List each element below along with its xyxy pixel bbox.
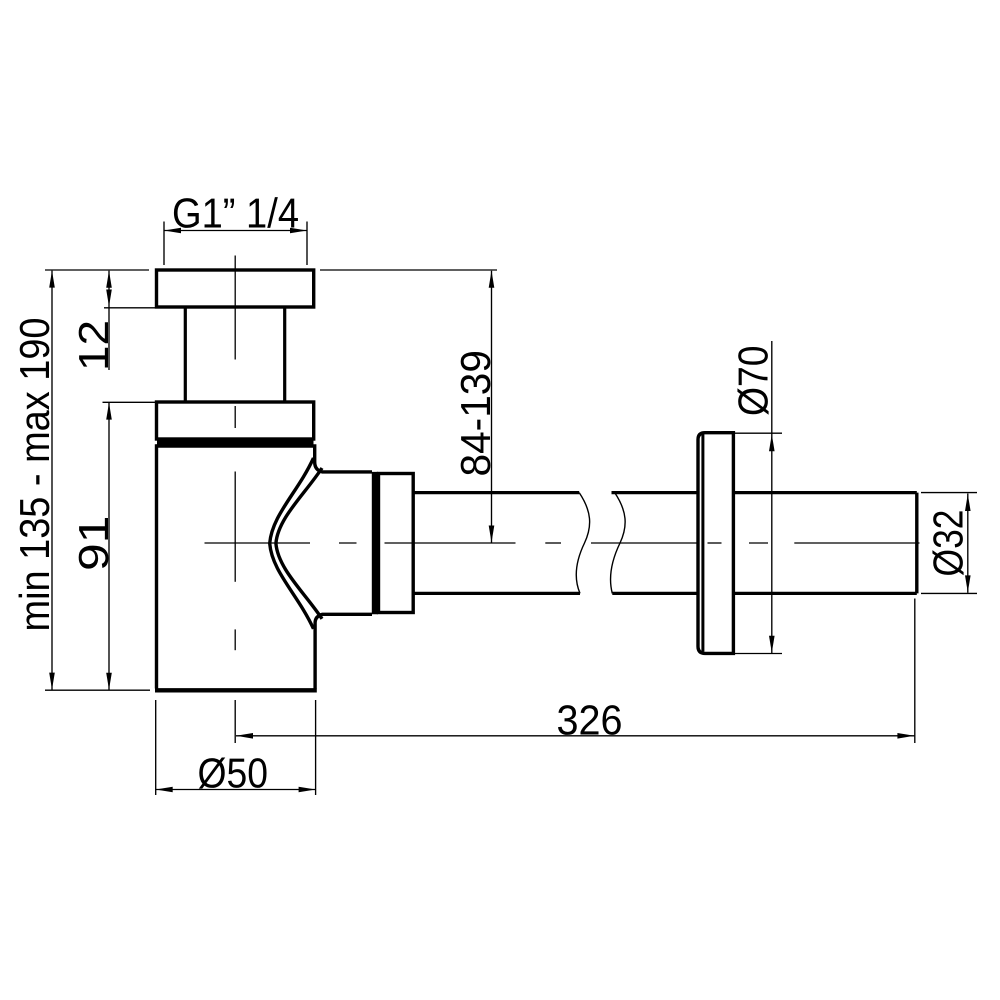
dimension 91 extension <box>103 401 156 403</box>
pipe break squiggle 1 <box>576 493 589 594</box>
svg-text:91: 91 <box>70 516 117 572</box>
vertical center line <box>234 256 236 651</box>
trap body cup <box>155 444 158 688</box>
dimension min135-max190 extension bottom <box>45 689 150 691</box>
lower flange (body cap) <box>157 402 314 439</box>
diam50 arrows <box>156 787 173 793</box>
outlet saddle outer curve <box>270 458 314 629</box>
dimension min135-max190 line <box>51 271 53 690</box>
dimension 84-139 extension <box>320 269 497 271</box>
svg-text:G1” 1/4: G1” 1/4 <box>172 189 299 236</box>
outlet gasket (thick) <box>372 472 378 614</box>
svg-text:Ø50: Ø50 <box>197 750 268 797</box>
dimension diam32 extensions <box>921 493 977 594</box>
dimension 12 line <box>108 271 110 370</box>
svg-text:326: 326 <box>557 697 623 744</box>
wall flange face line <box>701 435 704 652</box>
326 arrows <box>236 733 253 739</box>
84-139 arrows <box>489 271 495 288</box>
svg-text:min 135 - max 190: min 135 - max 190 <box>11 318 58 632</box>
91 arrows <box>106 403 112 420</box>
dimension 91 line <box>108 403 110 690</box>
dimension diam50 line <box>156 789 316 791</box>
G1 arrows <box>164 228 181 234</box>
svg-text:84-139: 84-139 <box>452 350 499 477</box>
diam32 arrows <box>965 494 971 511</box>
svg-text:Ø32: Ø32 <box>925 510 972 577</box>
svg-text:Ø70: Ø70 <box>730 346 777 417</box>
outlet pipe segment 3 <box>733 493 916 594</box>
horizontal center line <box>205 542 920 544</box>
dimension 12 extension <box>104 307 155 309</box>
dimension 326 line <box>236 735 914 737</box>
dimension diam70 extensions <box>735 433 782 653</box>
dimension diam50 extensions <box>156 700 316 795</box>
pipe break squiggle 2 <box>611 493 626 594</box>
dimension 326 extension left <box>234 700 236 743</box>
outlet pipe segment 2 <box>612 493 698 594</box>
dimension diam70 line <box>771 341 773 653</box>
dimension 326 extension right <box>914 599 916 744</box>
dimension diam32 line <box>967 494 969 593</box>
diam70 arrows <box>769 434 775 451</box>
top flange (G1 1/4 nut) <box>157 270 314 307</box>
gasket line under cap <box>157 440 314 445</box>
outlet saddle inner curve <box>276 468 322 619</box>
dimension min135-max190 extension top <box>45 269 149 271</box>
outlet pipe segment 1 <box>413 493 580 594</box>
wall flange rosette <box>698 433 733 654</box>
threaded tube between flanges <box>185 307 284 402</box>
compression nut <box>379 474 414 613</box>
12 arrows <box>106 271 112 288</box>
min135 arrows <box>49 271 55 288</box>
dimension 84-139 line <box>491 271 493 543</box>
dimension G1"1/4 line <box>164 230 307 232</box>
svg-text:12: 12 <box>70 320 117 371</box>
dimension G1"1/4 extension lines <box>45 222 977 796</box>
pipe end cap <box>915 493 918 594</box>
arrowheads <box>49 228 970 793</box>
